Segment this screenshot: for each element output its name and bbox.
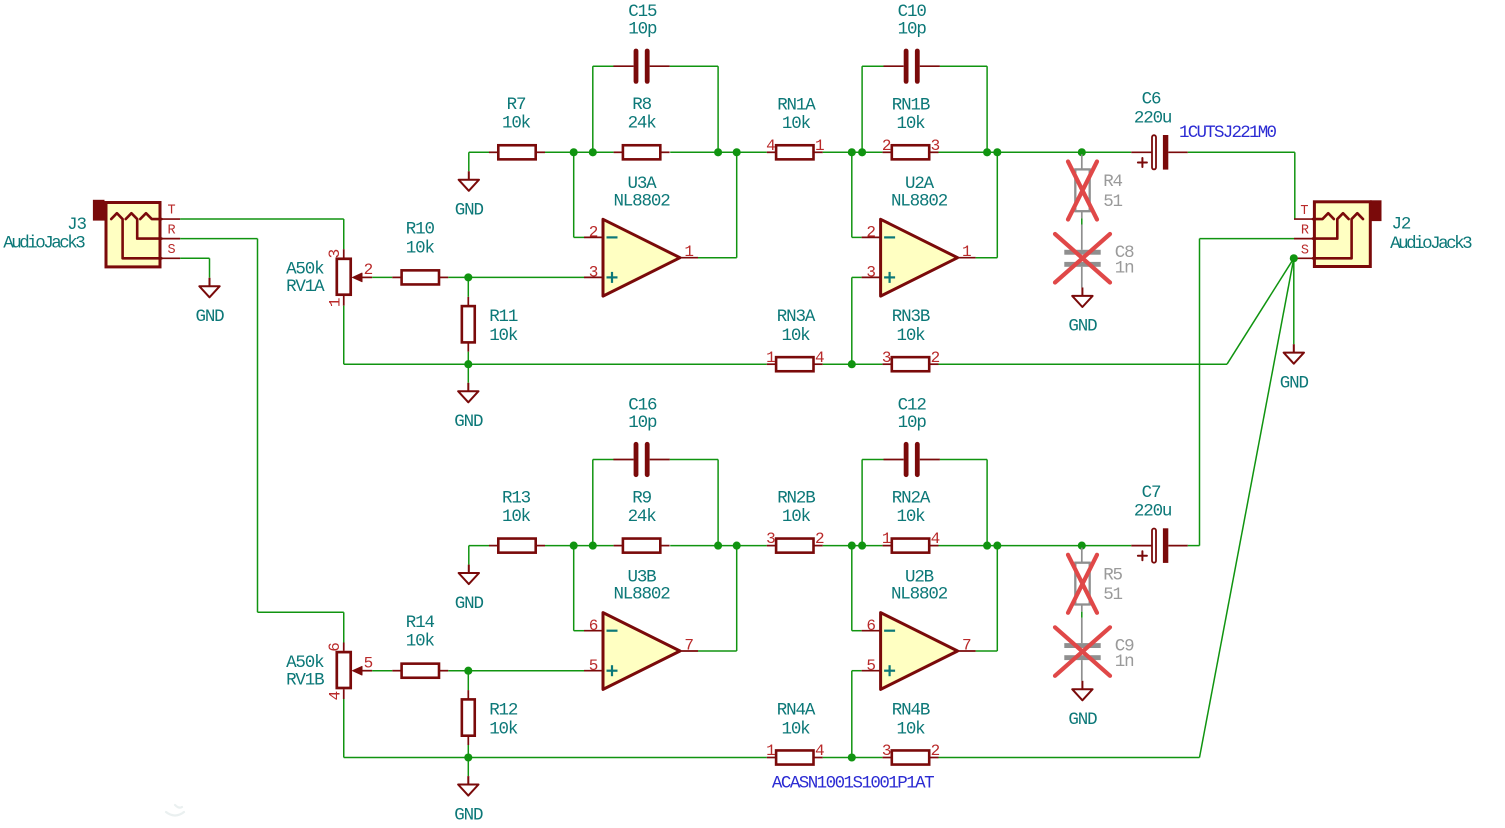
svg-text:RN3B: RN3B bbox=[892, 307, 930, 327]
DNP cross over R4 bbox=[1068, 162, 1097, 220]
wire C6 to J2-T bbox=[1188, 151, 1295, 153]
audio jack J3 body bbox=[93, 200, 105, 221]
ground below R12 bbox=[467, 758, 469, 777]
svg-text:4: 4 bbox=[815, 742, 824, 760]
junction node C10 right bbox=[983, 148, 991, 156]
svg-text:4: 4 bbox=[766, 137, 775, 155]
audio jack J2 body bbox=[1370, 200, 1382, 221]
svg-text:R8: R8 bbox=[632, 95, 651, 115]
svg-text:5: 5 bbox=[589, 657, 598, 675]
svg-text:NL8802: NL8802 bbox=[613, 585, 670, 605]
capacitor C6 bbox=[1131, 151, 1152, 153]
J3 pin T stub bbox=[162, 218, 181, 220]
svg-text:R: R bbox=[1301, 224, 1309, 239]
junction node U2B non-inverting bbox=[848, 753, 856, 761]
svg-text:4: 4 bbox=[931, 530, 940, 548]
svg-text:10k: 10k bbox=[896, 719, 925, 739]
wire RN1B to C6 bbox=[939, 151, 1132, 153]
J2 contact S bbox=[1313, 213, 1363, 258]
wire RN4A to RN4B bbox=[823, 757, 883, 759]
J2 pin R stub bbox=[1294, 238, 1313, 240]
resistor R7 bbox=[489, 151, 498, 153]
junction node U3B output bbox=[733, 542, 741, 550]
svg-text:RV1A: RV1A bbox=[286, 277, 325, 297]
svg-text:10p: 10p bbox=[628, 413, 657, 433]
svg-text:R7: R7 bbox=[507, 95, 526, 115]
svg-text:7: 7 bbox=[684, 636, 693, 654]
wire J3-S to ground bbox=[180, 257, 209, 259]
wire RN3B to J2-S diagonal bbox=[939, 363, 1228, 365]
junction node U3B inverting bbox=[570, 542, 578, 550]
wire RN2A to C7 bbox=[939, 545, 1132, 547]
wire R11 to aux line bbox=[467, 352, 469, 365]
wire C10 right down to main bbox=[940, 65, 987, 67]
resistor R5 (DNP) bbox=[1081, 548, 1083, 563]
svg-text:1: 1 bbox=[327, 298, 345, 307]
svg-text:220u: 220u bbox=[1134, 502, 1172, 522]
svg-text:RN3A: RN3A bbox=[777, 307, 816, 327]
junction node U2A inverting bbox=[848, 148, 856, 156]
svg-text:GND: GND bbox=[454, 805, 483, 825]
svg-text:51: 51 bbox=[1103, 192, 1122, 212]
J3 pin R stub bbox=[162, 238, 181, 240]
svg-text:10k: 10k bbox=[782, 114, 811, 134]
junction node C12 right bbox=[983, 542, 991, 550]
svg-text:5: 5 bbox=[364, 654, 373, 672]
svg-text:1: 1 bbox=[962, 243, 971, 261]
svg-text:NL8802: NL8802 bbox=[891, 585, 948, 605]
wire J3-R to RV1B pin6 bbox=[180, 238, 257, 240]
svg-text:10k: 10k bbox=[406, 632, 435, 652]
op-amp U3B bbox=[603, 613, 680, 690]
svg-text:5: 5 bbox=[866, 657, 875, 675]
wire C7 to J2-R corner bbox=[1188, 545, 1200, 547]
resistor network RN2B bbox=[767, 545, 776, 547]
svg-text:R14: R14 bbox=[406, 613, 435, 633]
svg-text:10k: 10k bbox=[781, 326, 810, 346]
svg-text:220u: 220u bbox=[1134, 108, 1172, 128]
capacitor C9 (DNP) bbox=[1081, 618, 1083, 643]
wire U3B output up to main bbox=[698, 650, 737, 652]
svg-text:AudioJack3: AudioJack3 bbox=[3, 234, 85, 254]
wire J2-S to ground bbox=[1293, 258, 1295, 344]
junction node U2A non-inverting bbox=[848, 360, 856, 368]
wire J2-S diagonal to RN4B line bbox=[1200, 258, 1294, 757]
J3 contact S bbox=[111, 213, 161, 258]
svg-text:T: T bbox=[1300, 204, 1308, 219]
junction node C15 left bbox=[589, 148, 597, 156]
junction node U2B inverting bbox=[848, 542, 856, 550]
svg-text:GND: GND bbox=[1068, 710, 1097, 730]
svg-text:10k: 10k bbox=[502, 507, 531, 527]
svg-text:51: 51 bbox=[1103, 585, 1122, 605]
ground below R13 bbox=[468, 565, 470, 573]
svg-text:1: 1 bbox=[882, 530, 891, 548]
svg-text:R: R bbox=[168, 223, 176, 238]
svg-text:4: 4 bbox=[327, 691, 345, 700]
wire R7 left to ground bbox=[469, 151, 489, 153]
J2 contact R bbox=[1313, 213, 1349, 238]
svg-text:1CUTSJ221M0: 1CUTSJ221M0 bbox=[1179, 123, 1277, 143]
svg-text:R12: R12 bbox=[489, 701, 518, 721]
resistor network RN3B bbox=[883, 363, 892, 365]
junction node R11 bottom bbox=[464, 360, 472, 368]
wire R8 to RN1A bbox=[670, 151, 767, 153]
wire down to U3A pin2 bbox=[573, 152, 575, 237]
J2 contact T bbox=[1313, 213, 1334, 219]
resistor network RN3A bbox=[767, 363, 776, 365]
op-amp U2A bbox=[881, 219, 958, 296]
ground below C8 bbox=[1081, 288, 1083, 296]
svg-text:3: 3 bbox=[882, 742, 891, 760]
svg-text:10k: 10k bbox=[489, 326, 518, 346]
svg-text:10k: 10k bbox=[782, 507, 811, 527]
svg-text:RN4B: RN4B bbox=[892, 701, 930, 721]
svg-text:3: 3 bbox=[326, 249, 344, 258]
DNP cross over C9 bbox=[1055, 627, 1110, 676]
junction node U3A inverting bbox=[570, 148, 578, 156]
svg-text:RN1B: RN1B bbox=[892, 95, 930, 115]
svg-text:RN4A: RN4A bbox=[777, 701, 816, 721]
svg-text:10k: 10k bbox=[406, 238, 435, 258]
wire C12 right down to main bbox=[940, 459, 987, 461]
wire RN4B to corner bbox=[939, 757, 1200, 759]
wire RV1A pin1 to aux line bbox=[343, 306, 345, 365]
svg-text:RN2A: RN2A bbox=[892, 489, 931, 509]
junction node R4 top bbox=[1078, 148, 1086, 156]
wire R7 to R8 bbox=[545, 151, 614, 153]
svg-text:R13: R13 bbox=[502, 489, 531, 509]
svg-text:R4: R4 bbox=[1103, 172, 1122, 192]
svg-text:6: 6 bbox=[326, 643, 344, 652]
resistor R12 bbox=[467, 690, 469, 699]
ground below R7 bbox=[468, 171, 470, 179]
svg-text:24k: 24k bbox=[628, 507, 657, 527]
resistor R13 bbox=[489, 545, 498, 547]
svg-text:R5: R5 bbox=[1103, 565, 1122, 585]
svg-text:4: 4 bbox=[815, 349, 824, 367]
svg-text:C6: C6 bbox=[1142, 90, 1161, 110]
wire R12 to aux line bbox=[467, 745, 469, 758]
svg-text:RN2B: RN2B bbox=[777, 489, 815, 509]
svg-text:GND: GND bbox=[455, 201, 484, 221]
svg-text:ACASN1001S1001P1AT: ACASN1001S1001P1AT bbox=[772, 774, 934, 794]
svg-text:10k: 10k bbox=[896, 114, 925, 134]
svg-text:GND: GND bbox=[1280, 373, 1309, 393]
wire J3-T to RV1A pin3 bbox=[180, 218, 344, 220]
wire R4 to C8 bbox=[1081, 218, 1083, 224]
svg-text:R10: R10 bbox=[406, 220, 435, 240]
resistor network RN1B bbox=[883, 151, 892, 153]
junction node C16 right bbox=[714, 542, 722, 550]
wire R13 left to ground bbox=[469, 545, 489, 547]
junction node U2B output bbox=[993, 542, 1001, 550]
wire RN2B to RN2A bbox=[823, 545, 883, 547]
wire R10 to U3A pin3 bbox=[448, 276, 584, 278]
svg-text:1: 1 bbox=[815, 137, 824, 155]
svg-text:AudioJack3: AudioJack3 bbox=[1390, 234, 1472, 254]
C7 polarity plus bbox=[1138, 551, 1147, 560]
wire RN1A to RN1B bbox=[823, 151, 883, 153]
resistor R4 (DNP) bbox=[1081, 154, 1083, 169]
svg-text:3: 3 bbox=[882, 349, 891, 367]
svg-text:10k: 10k bbox=[781, 719, 810, 739]
svg-text:RV1B: RV1B bbox=[286, 670, 324, 690]
wire down to U3B pin6 bbox=[573, 546, 575, 631]
wire R13 to R9 bbox=[545, 545, 614, 547]
wire up to U2A pin3 bbox=[851, 277, 853, 364]
J2 pin T stub bbox=[1294, 218, 1313, 220]
capacitor C8 (DNP) bbox=[1081, 225, 1083, 250]
capacitor C7 bbox=[1131, 545, 1152, 547]
resistor network RN4A bbox=[767, 757, 776, 759]
svg-text:1: 1 bbox=[684, 243, 693, 261]
junction node C12 left bbox=[858, 542, 866, 550]
svg-text:S: S bbox=[1301, 243, 1309, 258]
svg-text:GND: GND bbox=[1068, 317, 1097, 337]
wire U2B output up to main bbox=[976, 650, 998, 652]
svg-text:10p: 10p bbox=[898, 20, 927, 40]
capacitor C15 bbox=[613, 65, 633, 67]
op-amp U2B bbox=[881, 613, 958, 690]
wire down to U2B pin6 bbox=[851, 546, 853, 631]
C6 polarity plus bbox=[1138, 158, 1147, 167]
potentiometer RV1A bbox=[343, 249, 345, 257]
ground below C9 bbox=[1081, 681, 1083, 689]
svg-text:2: 2 bbox=[364, 261, 373, 279]
junction node U3A output bbox=[733, 148, 741, 156]
potentiometer RV1B bbox=[343, 643, 345, 651]
svg-text:10k: 10k bbox=[489, 719, 518, 739]
junction node R5 top bbox=[1078, 542, 1086, 550]
capacitor C10 bbox=[884, 65, 904, 67]
svg-text:2: 2 bbox=[589, 224, 598, 242]
junction node C16 left bbox=[589, 542, 597, 550]
wire J2-R to C7 column bbox=[1200, 238, 1295, 240]
svg-text:GND: GND bbox=[454, 412, 483, 432]
svg-text:J3: J3 bbox=[67, 215, 86, 235]
junction node C10 left bbox=[858, 148, 866, 156]
junction node R12 bottom bbox=[464, 753, 472, 761]
svg-text:6: 6 bbox=[866, 617, 875, 635]
wire junction to R12 bbox=[467, 671, 469, 690]
svg-text:10p: 10p bbox=[628, 20, 657, 40]
resistor R9 bbox=[614, 545, 623, 547]
J3 contact T bbox=[140, 213, 161, 219]
svg-text:C7: C7 bbox=[1142, 483, 1161, 503]
wire up to U2B pin5 bbox=[851, 671, 853, 758]
wire RV1B pin4 to aux line bbox=[343, 699, 345, 758]
wire R9 to RN2B bbox=[670, 545, 767, 547]
wire up to C15 bbox=[592, 66, 594, 152]
junction node R14/R12 bbox=[464, 667, 472, 675]
svg-text:1n: 1n bbox=[1115, 652, 1134, 672]
svg-text:R9: R9 bbox=[632, 489, 651, 509]
svg-text:NL8802: NL8802 bbox=[613, 191, 670, 211]
svg-text:10k: 10k bbox=[502, 114, 531, 134]
wire junction to R11 bbox=[467, 277, 469, 296]
svg-text:7: 7 bbox=[962, 636, 971, 654]
svg-text:3: 3 bbox=[589, 264, 598, 282]
J2 pin S stub bbox=[1294, 257, 1313, 259]
svg-text:2: 2 bbox=[866, 224, 875, 242]
wire RV1A wiper to R10 bbox=[372, 276, 392, 278]
svg-text:S: S bbox=[168, 243, 176, 258]
svg-text:2: 2 bbox=[931, 349, 940, 367]
wire up to C12 bbox=[861, 460, 863, 546]
svg-text:1: 1 bbox=[766, 349, 775, 367]
wire RV1B wiper to R14 bbox=[372, 670, 392, 672]
svg-text:3: 3 bbox=[931, 137, 940, 155]
resistor R10 bbox=[392, 276, 401, 278]
wire down to U2A pin2 bbox=[851, 152, 853, 237]
wire RN3A to RN3B bbox=[823, 363, 883, 365]
resistor network RN2A bbox=[883, 545, 892, 547]
op-amp U3A bbox=[603, 219, 680, 296]
svg-text:NL8802: NL8802 bbox=[891, 191, 948, 211]
wire U2A output up to main bbox=[976, 257, 998, 259]
svg-text:R11: R11 bbox=[489, 307, 518, 327]
svg-text:10k: 10k bbox=[896, 326, 925, 346]
svg-text:1n: 1n bbox=[1115, 259, 1134, 279]
DNP cross over R5 bbox=[1068, 555, 1097, 613]
svg-text:T: T bbox=[168, 204, 176, 219]
resistor R14 bbox=[392, 670, 401, 672]
junction node R10/R11 bbox=[464, 273, 472, 281]
svg-text:2: 2 bbox=[931, 742, 940, 760]
junction node C15 right bbox=[714, 148, 722, 156]
wire C16 right down to main bbox=[670, 459, 718, 461]
capacitor C12 bbox=[884, 459, 904, 461]
ghost mark bottom left bbox=[166, 805, 184, 816]
svg-text:RN1A: RN1A bbox=[777, 95, 816, 115]
svg-text:3: 3 bbox=[866, 264, 875, 282]
resistor R11 bbox=[467, 297, 469, 306]
wire up to C16 bbox=[592, 460, 594, 546]
svg-text:2: 2 bbox=[882, 137, 891, 155]
DNP cross over C8 bbox=[1055, 234, 1110, 283]
junction node U2A output bbox=[993, 148, 1001, 156]
wire R5 to C9 bbox=[1081, 612, 1083, 618]
svg-text:3: 3 bbox=[766, 530, 775, 548]
resistor network RN1A bbox=[767, 151, 776, 153]
svg-text:6: 6 bbox=[589, 617, 598, 635]
wire U3A output up to main bbox=[698, 257, 737, 259]
capacitor C16 bbox=[613, 459, 633, 461]
svg-text:J2: J2 bbox=[1392, 215, 1411, 235]
ground below R11 bbox=[467, 364, 469, 383]
svg-text:24k: 24k bbox=[628, 114, 657, 134]
svg-text:GND: GND bbox=[195, 307, 224, 327]
resistor network RN4B bbox=[883, 757, 892, 759]
wire R14 to U3B pin5 bbox=[448, 670, 584, 672]
svg-text:10k: 10k bbox=[896, 507, 925, 527]
svg-text:2: 2 bbox=[815, 530, 824, 548]
ground below J3 bbox=[209, 278, 211, 286]
wire C15 right down to main bbox=[670, 65, 718, 67]
ground below J2 bbox=[1293, 344, 1295, 352]
resistor R8 bbox=[614, 151, 623, 153]
svg-text:1: 1 bbox=[766, 742, 775, 760]
J3 contact R bbox=[126, 213, 162, 238]
svg-text:GND: GND bbox=[455, 594, 484, 614]
svg-text:10p: 10p bbox=[898, 413, 927, 433]
wire up to C10 bbox=[861, 66, 863, 152]
junction node J2-S bbox=[1290, 254, 1298, 262]
J3 pin S stub bbox=[162, 257, 181, 259]
